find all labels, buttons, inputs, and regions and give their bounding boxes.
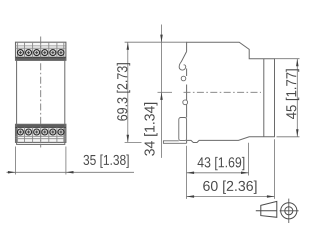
dimension 35 [1.38] extension lines bbox=[15, 147, 17, 175]
front view: terminal block bottom dark band bbox=[16, 124, 66, 127]
front view: terminal block top dark band bbox=[16, 57, 66, 60]
dimension 35 [1.38] text bbox=[83, 154, 128, 167]
front view: terminal block top comb strip bbox=[16, 42, 66, 48]
screw terminal bottom 3 bbox=[34, 129, 40, 135]
front view: bottom block cell dividers bbox=[24, 127, 26, 142]
dimension 45 [1.77] text bbox=[286, 69, 299, 119]
dimension 60 [2.36] extension line right bbox=[274, 139, 276, 199]
front view: body outline bbox=[17, 60, 65, 144]
dimension 34 [1.34] text bbox=[144, 103, 157, 156]
dimension 43 [1.69] text bbox=[197, 157, 244, 170]
side view: DIN clip small circle lower bbox=[183, 100, 188, 105]
front view: top terminal block outline bbox=[16, 42, 66, 60]
dimension 45 [1.77] extension ticks bbox=[275, 58, 300, 60]
dimension 69.3 [2.73] line bbox=[127, 42, 129, 142]
dimension 35 [1.38] line bbox=[7, 171, 135, 173]
dimension 43 [1.69] line bbox=[187, 172, 249, 174]
screw terminal bottom 6 bbox=[58, 129, 64, 135]
screw terminal top 2 bbox=[26, 50, 32, 56]
side view: horizontal centerline (dash-dot) bbox=[184, 91, 262, 93]
screw terminal top 5 bbox=[50, 50, 56, 56]
screw terminal bottom 2 bbox=[26, 129, 32, 135]
side view: back face segments bbox=[186, 69, 188, 144]
screw connection icon: side (cone) bbox=[261, 201, 277, 217]
screw connection icon: crosshairs bbox=[288, 199, 290, 223]
screw connection icon: front circle inner bbox=[285, 207, 293, 215]
side view: DIN clip hook curl bbox=[179, 62, 186, 70]
dimension 34 [1.34] tick at rail center bbox=[158, 91, 173, 93]
front view: top block cell dividers bbox=[24, 42, 26, 57]
dimension 60 [2.36] line bbox=[187, 196, 275, 198]
side view: DIN clip top diagonal bbox=[181, 52, 187, 63]
dimension 69.3 [2.73] extension ticks bbox=[125, 41, 187, 43]
dimension 69.3 [2.73] text bbox=[117, 63, 130, 120]
front view: terminal block top cells area bbox=[16, 48, 66, 57]
screw terminal top 6 bbox=[58, 50, 64, 56]
side view: DIN clip pull tab bbox=[163, 141, 186, 144]
dimension 45 [1.77] line bbox=[296, 59, 298, 137]
front view: terminal block bottom comb strip bbox=[16, 136, 66, 142]
side view: DIN clip slider rounded rect bbox=[179, 118, 187, 141]
side view: main outline profile bbox=[187, 42, 275, 142]
screw terminal top 4 bbox=[42, 50, 48, 56]
dimension 43 [1.69] extension lines bbox=[186, 146, 188, 199]
screw terminal bottom 1 bbox=[17, 129, 23, 135]
screw terminal top 1 bbox=[17, 50, 23, 56]
front view: bottom terminal block outline bbox=[16, 124, 66, 142]
dimension 34 [1.34] line bbox=[161, 25, 163, 158]
front view: vertical centerline (dash-dot) bbox=[40, 37, 42, 148]
screw connection icon: slot line bbox=[256, 210, 277, 212]
screw terminal bottom 5 bbox=[50, 129, 56, 135]
screw connection icon: front circle outer bbox=[281, 203, 297, 219]
side view: terminal column inner line bbox=[263, 59, 265, 137]
screw terminal top 3 bbox=[34, 50, 40, 56]
dimension 60 [2.36] text bbox=[203, 180, 256, 193]
screw terminal bottom 4 bbox=[42, 129, 48, 135]
front view: terminal block bottom cells area bbox=[16, 127, 66, 136]
side view: DIN clip small circle upper bbox=[181, 76, 186, 81]
